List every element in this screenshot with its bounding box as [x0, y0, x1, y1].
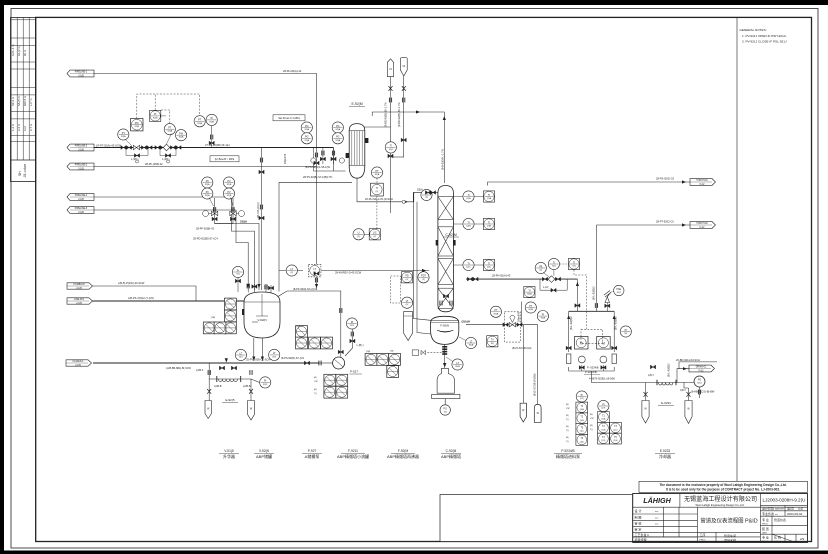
svg-text:28-PF-(2NB-42: 28-PF-(2NB-42 — [145, 162, 163, 166]
svg-text:PIPELINE-2: PIPELINE-2 — [75, 146, 88, 148]
svg-text:1-4 m: 1-4 m — [11, 123, 15, 131]
svg-text:PI: PI — [581, 394, 584, 397]
drain pot 2 — [248, 401, 255, 421]
wire condensate line to column — [357, 178, 438, 202]
vent stack capsule 2 — [400, 57, 407, 91]
svg-text:2-1(B: 2-1(B — [78, 212, 84, 214]
dashed box right of feed — [391, 276, 401, 303]
svg-text:(B(: (B( — [590, 425, 593, 427]
svg-text:(B(: (B( — [566, 415, 569, 417]
flag in y73.5 — [67, 70, 94, 77]
wire column left downcomer pair — [413, 192, 430, 320]
right column rows — [760, 500, 807, 502]
svg-text:制 图: 制 图 — [635, 514, 642, 519]
svg-text:专 业: 专 业 — [762, 517, 769, 522]
svg-text:PG: PG — [305, 125, 309, 128]
svg-text:PV: PV — [227, 191, 231, 194]
svg-text:PIA: PIA — [179, 133, 183, 136]
PT cluster near F-92N — [490, 306, 501, 317]
svg-text:L(B-5)-P(2(D)-43-SCW: L(B-5)-P(2(D)-43-SCW — [118, 281, 145, 285]
svg-text:(B-L-92(B(2: (B-L-92(B(2 — [591, 286, 595, 300]
svg-text:V-92(N: V-92(N — [259, 449, 270, 453]
flag in y197 — [67, 194, 94, 201]
svg-text:LP-PT-92(A)-43-SCW: LP-PT-92(A)-43-SCW — [96, 143, 122, 147]
svg-text:PT: PT — [198, 119, 202, 122]
svg-text:TI: TI — [573, 261, 575, 264]
svg-text:PD: PD — [405, 275, 409, 278]
label V-51(5 — [219, 449, 239, 459]
svg-text:(8-PS-92(A(1-S5-1(W: (8-PS-92(A(1-S5-1(W — [305, 165, 330, 169]
svg-text:PV: PV — [206, 180, 210, 183]
svg-text:L(2B-B: L(2B-B — [214, 385, 222, 388]
svg-text:ABP精馏塔: ABP精馏塔 — [441, 453, 461, 459]
svg-text:-01 colum: -01 colum — [23, 164, 27, 178]
square cluster left of reactor (L shape) — [203, 298, 236, 334]
svg-text:TI: TI — [467, 221, 469, 224]
drain pot 4 (x645) — [642, 401, 649, 424]
svg-text:E-92(M: E-92(M — [351, 102, 362, 106]
dashed line left of reboiler outlet — [412, 350, 445, 355]
svg-text:PG: PG — [444, 409, 448, 411]
svg-text:审 核: 审 核 — [635, 520, 642, 525]
svg-text:SF-2 m: SF-2 m — [11, 96, 15, 106]
svg-text:C-92(M: C-92(M — [446, 449, 457, 453]
svg-text:L-P m: L-P m — [29, 98, 33, 106]
svg-text:TI: TI — [488, 194, 490, 197]
svg-text:PROC: PROC — [762, 541, 769, 543]
svg-text:28-PV-92(B(-S7-1(B(17%: 28-PV-92(B(-S7-1(B(17% — [303, 175, 333, 179]
svg-text:(2(B: (2(B — [211, 317, 216, 319]
svg-text:2-1(B: 2-1(B — [78, 199, 84, 201]
line labels — [96, 69, 715, 394]
svg-text:TORCH-02: TORCH-02 — [696, 223, 708, 225]
svg-text:PI: PI — [211, 117, 214, 120]
svg-text:(2(B: (2(B — [296, 326, 301, 328]
drain pot 5 (x688) — [685, 401, 692, 424]
wire F-92N top lines — [441, 296, 451, 310]
cooler area valves — [644, 365, 701, 397]
svg-text:2-1(B: 2-1(B — [76, 303, 82, 305]
svg-text:PI: PI — [602, 403, 605, 406]
svg-text:GENERAL NOTES:: GENERAL NOTES: — [740, 28, 767, 32]
svg-text:管道及仪表流程图 P&ID: 管道及仪表流程图 P&ID — [700, 517, 757, 525]
svg-text:92(A: 92(A — [335, 139, 340, 142]
pumps P-9234/B small circles — [567, 354, 617, 375]
svg-text:(2(: (2( — [357, 236, 360, 238]
valves on x=316.5 vertical — [314, 153, 319, 165]
svg-text:C-92(M: C-92(M — [445, 233, 456, 237]
svg-text:(2(B: (2(B — [487, 226, 492, 228]
svg-text:PV: PV — [206, 191, 210, 194]
wire capsule vent lines — [390, 77, 392, 213]
svg-text:L(2B-BB-SB4)-B(-SCW: L(2B-BB-SB4)-B(-SCW — [166, 367, 191, 370]
svg-text:(1(D: (1(D — [601, 440, 606, 442]
drain capsule (x538) — [534, 404, 541, 422]
svg-text:TI: TI — [553, 261, 555, 264]
PI 923 instrument — [338, 308, 364, 354]
squares cluster bottom right of pump — [314, 374, 348, 398]
svg-text:L-(2B-): L-(2B-) — [162, 158, 170, 161]
svg-text:F-9211: F-9211 — [348, 449, 358, 453]
svg-text:F-92(N: F-92(N — [440, 323, 449, 327]
svg-text:28-PS-9202-C5: 28-PS-9202-C5 — [656, 177, 675, 181]
svg-text:2. PV-921J CLOSE IF PSL-921J: 2. PV-921J CLOSE IF PSL-921J — [742, 40, 787, 44]
instrument circle stacks bottom 2 — [590, 400, 621, 444]
svg-text:(2(A(H: (2(A(H — [462, 320, 470, 324]
svg-text:92(B: 92(B — [134, 126, 139, 128]
svg-text:92(A: 92(A — [494, 312, 499, 315]
svg-text:TI: TI — [528, 289, 530, 292]
svg-text:1. PV-921J OPEN IF PSH-921A,: 1. PV-921J OPEN IF PSH-921A, — [742, 34, 787, 38]
svg-text:ABP精馏塔再沸器: ABP精馏塔再沸器 — [387, 453, 419, 459]
wire line to cooler E-9233 — [592, 378, 658, 383]
svg-text:(2(: (2( — [290, 272, 293, 274]
wire flag 286 line — [93, 286, 197, 301]
svg-text:92(: 92( — [624, 333, 627, 335]
svg-text:28-49-REX-D-43-SCW: 28-49-REX-D-43-SCW — [335, 271, 362, 275]
svg-text:PIPELINE-5: PIPELINE-5 — [75, 208, 88, 210]
svg-text:LIC: LIC — [373, 232, 377, 235]
svg-text:(1(C: (1(C — [613, 429, 618, 431]
svg-text:92(: 92( — [491, 343, 494, 345]
svg-text:C5P: C5P — [314, 381, 319, 383]
svg-text:6-PL-1 m: 6-PL-1 m — [11, 44, 15, 56]
reboiler F-92M — [431, 316, 470, 344]
svg-text:6-(2: 6-(2 — [23, 126, 27, 131]
svg-text:L(2B-B: L(2B-B — [243, 385, 251, 388]
svg-text:(b( Bew.B > MPa: (b( Bew.B > MPa — [215, 157, 235, 161]
stream flags left — [66, 70, 716, 372]
flag out y225 — [690, 222, 716, 229]
svg-text:92(B: 92(B — [153, 117, 158, 119]
flag in y166.5 — [67, 163, 94, 170]
svg-text:(1(C: (1(C — [580, 431, 585, 433]
wire reactor vapor line up-right — [278, 291, 341, 357]
left 6 rows — [633, 513, 698, 515]
LT circles under reactor — [235, 349, 246, 360]
svg-text:(8-HB-D(CS(-B)-BW: (8-HB-D(CS(-B)-BW — [691, 390, 715, 394]
valves on condensate line — [425, 191, 430, 195]
wire reboiler bottom to receiver — [444, 344, 446, 368]
svg-text:LJ2003-0208H-9.2(U: LJ2003-0208H-9.2(U — [763, 498, 806, 503]
flag in y363 — [66, 360, 92, 367]
svg-text:KOMBILIN: KOMBILIN — [74, 284, 85, 286]
svg-text:(B-L-92(B(2: (B-L-92(B(2 — [569, 316, 573, 330]
wire reboiler outlet heavy y=279.1 — [466, 278, 577, 280]
Pr circle right of sublimer — [260, 377, 271, 388]
valve manifold group 2 on main line — [155, 144, 181, 163]
wire vertical x=279 — [278, 182, 280, 270]
svg-text:TV: TV — [491, 339, 494, 342]
svg-text:2-1(B: 2-1(B — [78, 149, 84, 151]
svg-text:PIPELINE-3: PIPELINE-3 — [75, 165, 88, 167]
svg-text:2-4 m: 2-4 m — [17, 123, 21, 131]
wire cooler outlet to flag — [677, 369, 689, 383]
svg-text:920-5 m: 920-5 m — [23, 95, 27, 106]
flag in y286 — [67, 283, 93, 290]
general notes text — [740, 28, 787, 44]
svg-text:E-92(5: E-92(5 — [225, 398, 234, 402]
svg-text:(2(: (2( — [376, 191, 379, 193]
svg-text:(B(: (B( — [566, 404, 569, 406]
rotated line labels — [256, 102, 671, 396]
svg-text:T((: T(( — [590, 429, 593, 431]
wire reactor bottom outlets — [253, 338, 255, 361]
svg-text:(9-BD-92(B(-65-1.7%: (9-BD-92(B(-65-1.7% — [397, 102, 401, 127]
svg-text:(B(: (B( — [314, 389, 317, 391]
svg-text:P-9234/B: P-9234/B — [585, 370, 597, 374]
svg-text:(B(: (B( — [566, 426, 569, 428]
svg-text:92(A: 92(A — [205, 194, 210, 197]
svg-text:20-BD-9211-63-SCH: 20-BD-9211-63-SCH — [676, 358, 700, 362]
valves on heavy 363 line — [304, 361, 321, 366]
svg-text:92(: 92( — [236, 274, 239, 276]
svg-text:(2(C: (2(C — [487, 267, 492, 269]
svg-text:比 例: 比 例 — [774, 535, 781, 540]
svg-text:PI: PI — [542, 313, 545, 316]
svg-text:精馏塔进料泵: 精馏塔进料泵 — [556, 453, 580, 459]
PSV relief on manifold — [604, 285, 624, 302]
left margin continuation table — [11, 17, 36, 181]
agitator M boxes — [575, 337, 611, 350]
svg-text:1B(: 1B( — [390, 351, 394, 353]
svg-text:TI: TI — [467, 194, 469, 197]
svg-text:28-70S-(9-(1(: 28-70S-(9-(1( — [256, 202, 260, 218]
svg-text:92(2: 92(2 — [263, 384, 268, 386]
heavy line y=279.1 fittings — [467, 276, 567, 292]
svg-text:(8-PS-92(B(-S7-(C4: (8-PS-92(B(-S7-(C4 — [281, 356, 304, 360]
svg-text:(2(B: (2(B — [466, 226, 471, 228]
svg-text:(B-L-92(B(2: (B-L-92(B(2 — [614, 316, 618, 330]
svg-text:设 计: 设 计 — [635, 508, 642, 513]
svg-text:(B-(5-SCXB-(9(A: (B-(5-SCXB-(9(A — [512, 346, 532, 350]
svg-text:4-9979-92(9(1+(5-5(W: 4-9979-92(9(1+(5-5(W — [589, 377, 615, 381]
svg-text:PIPELINE-1: PIPELINE-1 — [75, 72, 88, 74]
wire pump discharge header — [569, 367, 615, 371]
drain pot 3 pointed (x523) — [520, 403, 526, 422]
instrument PT/PI above line x211 — [194, 116, 205, 127]
svg-text:28-PH-92(A)-42: 28-PH-92(A)-42 — [283, 69, 302, 73]
svg-text:2003-09-02: 2003-09-02 — [787, 512, 803, 516]
set press box — [273, 115, 305, 121]
svg-text:设计阶段: 设计阶段 — [762, 506, 774, 511]
svg-text:TI: TI — [376, 187, 378, 190]
svg-text:管道仪表: 管道仪表 — [774, 517, 786, 522]
svg-text:2-1(B: 2-1(B — [75, 365, 81, 367]
flag in y147.5 — [67, 144, 94, 151]
wire long vertical from R2 area down — [521, 302, 523, 325]
LT circles near reboiler bottom — [459, 337, 477, 349]
PG circles right — [301, 122, 312, 133]
svg-text:ABP储罐: ABP储罐 — [256, 453, 272, 459]
svg-text:PT: PT — [122, 132, 126, 135]
svg-text:PV: PV — [227, 180, 231, 183]
svg-text:Pr: Pr — [264, 380, 267, 383]
flag in y301 — [67, 298, 93, 305]
control valve station on y=324.7 line — [487, 312, 522, 347]
svg-text:项目名称: 项目名称 — [724, 538, 736, 543]
svg-text:PE: PE — [539, 265, 543, 268]
squares far right of pump — [365, 351, 400, 378]
svg-text:L(B-PS-7(64)2-(7-(C5(: L(B-PS-7(64)2-(7-(C5( — [128, 296, 154, 300]
wire drop to pot 3 — [522, 325, 524, 404]
svg-text:C5P: C5P — [566, 408, 571, 410]
svg-text:92(A: 92(A — [335, 128, 340, 131]
svg-text:(1(A: (1(A — [580, 408, 585, 411]
svg-text:92(A: 92(A — [375, 173, 380, 176]
svg-text:LI: LI — [358, 232, 360, 235]
svg-text:PG: PG — [336, 136, 340, 139]
svg-text:ABP精馏塔小流罐: ABP精馏塔小流罐 — [337, 453, 369, 459]
valves misc on reactor top — [247, 272, 319, 290]
svg-text:(9-BD-92(B(-65-1.7%: (9-BD-92(B(-65-1.7% — [384, 102, 388, 127]
svg-text:PT: PT — [168, 127, 172, 130]
svg-text:1B(A: 1B(A — [240, 220, 248, 224]
svg-text:(1(E: (1(E — [614, 440, 619, 442]
svg-text:PDT: PDT — [421, 275, 426, 278]
svg-text:C5P: C5P — [590, 418, 595, 420]
instrument PT 921A — [118, 129, 131, 145]
equipment label row — [219, 449, 675, 459]
svg-text:L-(B(-(: L-(B(-( — [357, 344, 364, 347]
svg-text:60 m: 60 m — [23, 49, 27, 56]
svg-text:L(2B-F: L(2B-F — [196, 369, 204, 372]
svg-text:升华器: 升华器 — [223, 453, 235, 459]
svg-text:V-51(5: V-51(5 — [224, 449, 234, 453]
PV stack 1 — [202, 177, 218, 221]
svg-text:LÄHIGH: LÄHIGH — [643, 496, 671, 505]
column right instruments rows — [453, 191, 494, 202]
svg-text:BAS/DET: BAS/DET — [775, 508, 785, 511]
wire stepped line from flag 210 — [94, 210, 248, 290]
TI circle on capsule line — [385, 142, 396, 153]
svg-text:(B(: (B( — [566, 437, 569, 439]
wire feed line reactor to column y=270.5 — [279, 270, 303, 272]
notes divider line — [736, 17, 738, 481]
dashed signal lines top-left — [137, 94, 200, 124]
condenser E-92M — [346, 102, 369, 178]
svg-text:E-9233: E-9233 — [661, 401, 671, 405]
svg-text:20-PH-9211-C5-(D-SCH: 20-PH-9211-C5-(D-SCH — [365, 197, 393, 201]
svg-text:(1(A: (1(A — [601, 418, 606, 421]
svg-text:L-(2B-): L-(2B-) — [131, 158, 139, 161]
small cells text — [635, 506, 805, 544]
svg-text:28-PH-92(A(-43: 28-PH-92(A(-43 — [492, 274, 511, 278]
svg-text:(2(: (2( — [422, 279, 425, 281]
svg-text:PROC: PROC — [700, 540, 707, 542]
instrument Pr on reactor dome — [232, 266, 243, 292]
svg-text:装 置: 装 置 — [762, 526, 769, 531]
svg-text:P -9234/B: P -9234/B — [587, 366, 599, 370]
svg-text:92(A: 92(A — [197, 122, 202, 125]
svg-text:(8-(5-SCXB-(9-(B(A: (8-(5-SCXB-(9-(B(A — [533, 373, 537, 396]
receiver flask below reboiler — [432, 346, 460, 415]
svg-text:92(: 92( — [444, 411, 447, 413]
note box 2 — [210, 156, 239, 162]
svg-text:(2(A: (2(A — [487, 197, 492, 200]
svg-text:TI: TI — [390, 145, 392, 148]
svg-text:2-1(B: 2-1(B — [76, 288, 82, 290]
svg-text:PG: PG — [305, 136, 309, 139]
PV stack 2 — [223, 177, 244, 221]
svg-text:P-927: P-927 — [308, 449, 317, 453]
column C-92M — [436, 186, 459, 312]
vessel V-92N reactor — [242, 292, 280, 338]
svg-text:92(: 92( — [572, 266, 575, 268]
svg-text:Pr: Pr — [237, 269, 240, 272]
svg-text:The document is the exclusive: The document is the exclusive property o… — [659, 483, 786, 487]
svg-text:专 业: 专 业 — [762, 535, 769, 540]
F-92N vessel top fittings — [440, 294, 452, 305]
svg-text:A储桶泵: A储桶泵 — [305, 453, 320, 459]
svg-text:PSE: PSE — [616, 289, 621, 291]
svg-text:92(A: 92(A — [121, 135, 126, 138]
svg-text:92(B: 92(B — [209, 121, 214, 123]
svg-text:L(B-7: L(B-7 — [648, 374, 655, 377]
svg-text:(1(B: (1(B — [601, 429, 606, 431]
svg-text:TI: TI — [488, 262, 490, 265]
squares right of reactor — [296, 326, 333, 349]
svg-text:(B-L-92(B(2: (B-L-92(B(2 — [667, 363, 671, 377]
svg-text:92(1: 92(1 — [697, 383, 702, 385]
wire flag 301 heavy line to reactor — [93, 300, 245, 302]
small pot left of reboiler — [404, 312, 413, 341]
svg-text:FLAKES-1: FLAKES-1 — [73, 360, 85, 363]
svg-text:E-9233: E-9233 — [660, 449, 671, 453]
svg-text:SCALE: SCALE — [774, 540, 782, 543]
svg-text:项目经理: 项目经理 — [635, 537, 647, 542]
svg-text:(27(: (27( — [601, 408, 605, 410]
svg-text:P-527: P-527 — [350, 370, 358, 374]
svg-text:92(B: 92(B — [227, 195, 232, 197]
svg-text:TI: TI — [488, 221, 490, 224]
svg-text:(2(B: (2(B — [366, 351, 371, 353]
svg-text:冷却器: 冷却器 — [659, 453, 671, 459]
svg-text:28-PF-92(B(-42: 28-PF-92(B(-42 — [196, 227, 215, 231]
valves on x=261.5 vertical — [259, 158, 264, 220]
dashed line from TI square down to dashed box — [574, 270, 587, 330]
condenser instruments PT/TV — [371, 167, 384, 196]
wire column overhead right line to flag R1 — [488, 182, 690, 186]
sublimer coil E-9215 — [217, 376, 241, 403]
wire sublimer drops and pots — [209, 363, 217, 379]
TI on overhead — [421, 189, 432, 200]
instruments above diamond valve — [535, 262, 550, 277]
drain pot 1 — [205, 401, 211, 419]
svg-text:专业负责: 专业负责 — [762, 511, 774, 516]
wire P-927 pump connections — [333, 362, 335, 364]
svg-text:92(B: 92(B — [541, 318, 546, 320]
LIC pair below condenser — [353, 229, 364, 240]
svg-text:(1(D: (1(D — [580, 441, 585, 443]
svg-text:28-PT-9202-C5: 28-PT-9202-C5 — [656, 220, 674, 224]
sublimer area valves — [166, 366, 253, 394]
svg-text:PROC: PROC — [762, 524, 769, 526]
vent stack capsule 1 — [387, 59, 393, 91]
svg-text:(B(: (B( — [314, 377, 317, 379]
svg-text:LINE-P21: LINE-P21 — [74, 299, 85, 301]
svg-text:TI: TI — [467, 262, 469, 265]
wire pump manifold — [569, 310, 615, 312]
svg-text:62-(2 m: 62-(2 m — [17, 46, 21, 56]
flag out y367 — [689, 365, 715, 372]
svg-text:UNIT: UNIT — [762, 533, 768, 535]
LT circle + dashed LT square on feed line — [286, 265, 297, 276]
wire long vertical x=261.5 from main line to reactor — [261, 148, 263, 291]
pump P-9251 circle — [694, 376, 705, 387]
svg-text:F-02: F-02 — [699, 370, 704, 372]
svg-text:工艺负责人: 工艺负责人 — [635, 532, 650, 537]
